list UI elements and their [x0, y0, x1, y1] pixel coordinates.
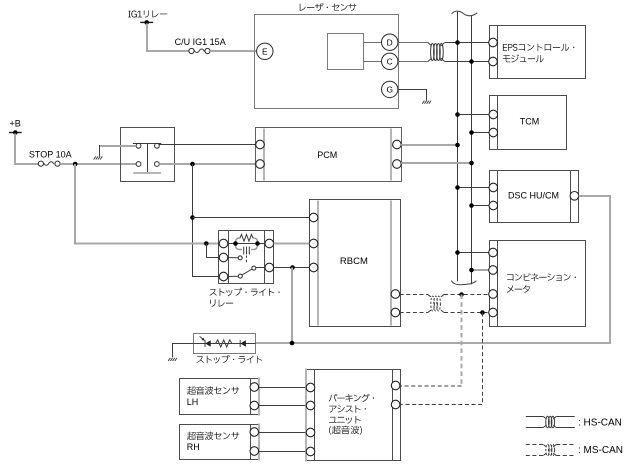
ultrasonic sensor LH box — [180, 378, 260, 416]
parking pin right 2 — [391, 400, 400, 409]
parking assist unit box — [306, 369, 401, 462]
meter pin 2 — [489, 266, 498, 275]
laser sensor inner unit — [328, 34, 364, 70]
wire IG1 to fuse — [147, 23, 189, 51]
DSC HU/CM box — [490, 171, 579, 223]
CAN bus line 1 — [457, 12, 459, 282]
node — [290, 265, 295, 270]
label IG1 relay — [128, 10, 167, 17]
svg-text:PCM: PCM — [317, 150, 337, 160]
parking pin left 3 — [306, 428, 315, 437]
parking pin left 1 — [306, 383, 315, 392]
legend MS-CAN — [526, 444, 623, 456]
contact — [238, 274, 242, 278]
stop light relay box — [219, 231, 274, 284]
EPS pin 2 — [489, 57, 498, 66]
wire LH1 to parking assist — [259, 387, 307, 389]
wire stop light internal — [194, 343, 256, 345]
RBCM pin right 1 — [391, 290, 400, 299]
ground stop light — [168, 358, 177, 361]
wire fuse to relay — [60, 163, 136, 165]
svg-text:RH: RH — [187, 442, 200, 452]
PCM pin right 1 — [393, 140, 402, 149]
wire bus1 to TCM pin 1 — [458, 114, 489, 116]
RBCM pin left 3 — [309, 263, 318, 272]
wire pin G to ground — [398, 90, 427, 101]
wire inner unit to pin C — [364, 61, 382, 63]
TCM box — [490, 96, 567, 150]
node — [469, 161, 474, 166]
svg-text:D: D — [387, 37, 393, 47]
resistor stop light relay — [236, 234, 258, 249]
wire ground drop — [99, 145, 101, 156]
svg-text:LH: LH — [187, 397, 199, 407]
relay pin top-right — [155, 143, 160, 148]
svg-text:C/U IG1 15A: C/U IG1 15A — [175, 37, 226, 47]
RBCM pin left 2 — [309, 239, 318, 248]
stop light relay pin right 2 — [265, 263, 274, 272]
wire LH2 to parking assist — [259, 405, 307, 407]
parking pin left 4 — [306, 447, 315, 456]
node — [469, 203, 474, 208]
wire node down to stop light line — [291, 268, 293, 344]
label EPS control module line2 — [503, 54, 544, 62]
wire relay to PCM pin 2 — [159, 163, 255, 165]
wire twisted pair to EPS pin 2 — [445, 61, 489, 63]
diode 1 — [205, 340, 211, 347]
label parking assist line2 — [329, 405, 366, 413]
label combination meter line2 — [507, 285, 530, 293]
meter pin 4 — [489, 308, 498, 317]
node bus1/D line — [455, 40, 460, 45]
fuse STOP 10A — [29, 150, 72, 167]
label combination meter line1 — [507, 273, 576, 281]
label laser sensor — [300, 3, 357, 11]
wire MS-CAN RBCM to twisted pair top — [400, 294, 428, 296]
relay contact bar — [133, 144, 161, 173]
wire +B to STOP fuse — [15, 134, 38, 165]
svg-text:: HS-CAN: : HS-CAN — [578, 418, 622, 429]
wire bus2 to meter pin 2 — [472, 269, 489, 271]
node — [469, 130, 474, 135]
coil link dashed — [246, 256, 248, 264]
TCM pin 1 — [489, 110, 498, 119]
stop light relay pin left 1 — [219, 239, 228, 248]
pin G — [382, 81, 398, 97]
EPS pin 1 — [489, 38, 498, 47]
legend HS-CAN — [526, 416, 622, 428]
node — [480, 310, 485, 315]
node relay output — [190, 162, 195, 167]
RH pin 1 — [250, 428, 259, 437]
fuse C/U IG1 15A — [175, 37, 226, 54]
parking pin right 1 — [391, 381, 400, 390]
wire node to RBCM pin 1 — [193, 164, 220, 277]
wire pin C to twisted pair — [398, 61, 428, 63]
wire stop light relay to RBCM pin 2 — [274, 243, 310, 245]
svg-text:RBCM: RBCM — [340, 256, 368, 267]
wire pin3 to contact — [228, 275, 238, 277]
wire MS-CAN down to parking assist pin 1 (gray) — [461, 295, 463, 386]
relay coil bar — [133, 172, 161, 174]
wire stop light to ground — [173, 344, 194, 358]
pin D — [382, 34, 398, 50]
bus break bottom — [451, 281, 476, 285]
wire MS-CAN to meter pin 3 — [444, 294, 489, 296]
stop light box — [194, 334, 256, 354]
wire relay to ground — [99, 145, 136, 147]
relay pin top-left — [136, 143, 141, 148]
wire MS-CAN RBCM to twisted pair bottom — [400, 312, 428, 314]
wire fuse to laser sensor pin E — [210, 50, 257, 52]
contact — [252, 266, 256, 270]
wire RH2 to parking assist — [259, 451, 307, 453]
RBCM box — [310, 200, 401, 327]
relay pin bottom-left — [136, 162, 141, 167]
wire STOP node to stop light relay — [75, 164, 219, 244]
node — [255, 241, 260, 246]
wire RH1 to parking assist — [259, 432, 307, 434]
wire twisted pair to EPS pin 1 — [445, 42, 489, 44]
RBCM pin left 1 — [309, 213, 318, 222]
label stop light relay line1 — [209, 288, 279, 296]
label stop light relay line2 — [210, 300, 233, 307]
wire pin2 to contact — [228, 257, 238, 259]
ground laser sensor — [422, 101, 431, 104]
svg-text:DSC HU/CM: DSC HU/CM — [508, 190, 559, 200]
label parking assist line3 — [329, 416, 361, 424]
RH pin 2 — [250, 447, 259, 456]
ultrasonic sensor RH box — [180, 424, 260, 461]
label ultrasonic sensor RH — [187, 432, 239, 440]
node — [204, 241, 209, 246]
lamp arrow — [200, 336, 205, 340]
PCM box — [256, 128, 402, 182]
svg-text:E: E — [262, 46, 268, 56]
pin E — [257, 43, 273, 59]
svg-text:TCM: TCM — [520, 117, 540, 127]
stop light relay pin left 3 — [219, 272, 228, 281]
wire stop light relay to RBCM pin 3 — [274, 267, 310, 269]
LH pin 2 — [250, 401, 259, 410]
stop light relay pin right 1 — [265, 239, 274, 248]
wire bus2 to TCM pin 2 — [472, 132, 489, 134]
svg-text:C: C — [387, 56, 393, 66]
svg-text:: MS-CAN: : MS-CAN — [578, 445, 623, 456]
diode 2 — [240, 340, 246, 347]
wire PCM to bus1 — [401, 144, 458, 146]
node — [459, 292, 464, 297]
label stop light — [197, 355, 263, 363]
svg-text:G: G — [386, 85, 393, 95]
node — [455, 143, 460, 148]
wire MS-CAN to parking assist pin 1 — [400, 385, 462, 387]
LH pin 1 — [250, 383, 259, 392]
DSC pin 2 — [489, 201, 498, 210]
switch arm — [242, 269, 252, 275]
svg-text:STOP 10A: STOP 10A — [29, 150, 72, 160]
wire MS-CAN to meter pin 4 — [444, 312, 489, 314]
wire contact to pin right 2 — [256, 267, 265, 269]
laser sensor box — [255, 15, 399, 109]
node bus2/C line — [469, 59, 474, 64]
wire pin D to twisted pair — [398, 42, 428, 44]
bus break top — [452, 11, 478, 16]
PCM pin left 2 — [256, 160, 265, 169]
terminal IG1 relay — [140, 20, 153, 25]
node — [233, 241, 238, 246]
label parking assist line4 — [329, 426, 362, 435]
EPS control module box — [490, 26, 586, 79]
wire bus2 to DSC pin 2 — [472, 205, 489, 207]
wire bus1 to meter pin 1 — [458, 252, 489, 254]
pin C — [382, 53, 398, 69]
twisted pair HS-CAN laser — [428, 43, 445, 62]
PCM pin right 2 — [393, 160, 402, 169]
CAN bus line 2 — [471, 16, 473, 285]
wire inner unit to pin D — [364, 42, 382, 44]
node — [190, 215, 195, 220]
wire DSC to stop light run — [256, 196, 611, 343]
node — [455, 185, 460, 190]
wire relay coil row — [228, 243, 265, 245]
RBCM pin right 2 — [391, 308, 400, 317]
node — [455, 112, 460, 117]
terminal +B — [9, 118, 22, 135]
relay pin bottom-right — [155, 162, 160, 167]
label ultrasonic sensor LH — [187, 386, 239, 394]
parking pin left 2 — [306, 401, 315, 410]
meter pin 1 — [489, 248, 498, 257]
PCM pin left 1 — [256, 140, 265, 149]
relay box — [121, 128, 175, 182]
label EPS control module line1 — [503, 44, 575, 52]
wire PCM to bus2 — [401, 162, 471, 164]
wire node to RBCM — [193, 217, 310, 219]
meter pin 3 — [489, 290, 498, 299]
node — [290, 341, 295, 346]
twisted pair MS-CAN — [428, 295, 444, 313]
contact — [238, 256, 242, 260]
ground relay — [94, 156, 103, 159]
wire MS-CAN down to parking assist pin 2 — [400, 313, 483, 405]
combination meter box — [490, 241, 586, 327]
DSC pin right — [570, 192, 579, 201]
TCM pin 2 — [489, 128, 498, 137]
wire relay to PCM pin 1 — [159, 144, 255, 146]
DSC pin 1 — [489, 183, 498, 192]
wire bus1 to DSC pin 1 — [458, 187, 489, 189]
node junction STOP — [73, 162, 78, 167]
stop light relay pin left 2 — [219, 253, 228, 262]
svg-text:+B: +B — [10, 118, 21, 128]
coil stop light relay — [244, 247, 250, 255]
resistor stop light — [213, 340, 235, 347]
label parking assist line1 — [329, 394, 374, 402]
wire node to relay pin 2 — [207, 244, 220, 258]
node — [469, 268, 474, 273]
node — [455, 250, 460, 255]
